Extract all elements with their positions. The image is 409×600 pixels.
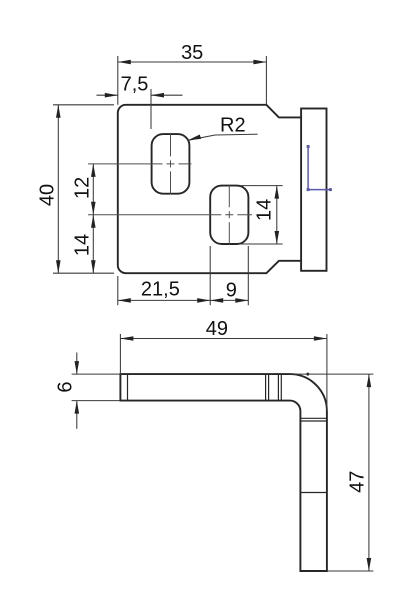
dim 7,5 arrows <box>97 94 118 96</box>
bend line pair 2 <box>278 374 281 401</box>
dim 49 line <box>120 338 327 340</box>
slot 1 centerline vertical <box>170 134 172 195</box>
dim 47 extension lines <box>290 374 373 571</box>
end cap line <box>127 374 129 401</box>
dim 12 line <box>92 164 94 215</box>
dim 7,5 extension line <box>150 89 152 129</box>
svg-text:R2: R2 <box>220 114 246 136</box>
slot 2 centerline horizontal <box>88 214 252 216</box>
svg-text:6: 6 <box>54 382 76 393</box>
svg-text:47: 47 <box>346 471 368 493</box>
dim 47 line <box>368 374 370 571</box>
dim 40 extension lines <box>53 105 114 273</box>
svg-text:9: 9 <box>226 280 237 302</box>
slot 2 centerline vertical <box>228 185 230 244</box>
dim 21,5 line <box>118 299 210 301</box>
svg-text:49: 49 <box>206 318 228 340</box>
dim 14 right extension lines <box>240 186 283 244</box>
point dot <box>306 373 309 376</box>
blue polyline <box>308 147 330 190</box>
bend line pair 1 <box>266 374 269 401</box>
R2 leader <box>188 134 258 140</box>
L profile outline (side view) <box>120 374 327 571</box>
svg-text:14: 14 <box>72 234 94 256</box>
dim 6 arrows <box>76 353 78 375</box>
svg-text:21,5: 21,5 <box>141 278 180 300</box>
slot 2 <box>210 186 248 244</box>
bend line pair vertical arm <box>300 418 327 421</box>
plate outline (top view) <box>118 105 301 273</box>
dim 35 extension lines <box>118 56 267 105</box>
svg-text:12: 12 <box>72 177 94 199</box>
dim 6 extension lines <box>72 374 121 401</box>
dim 49 extension lines <box>120 334 327 411</box>
flange (top view right) <box>301 109 326 271</box>
segment line vertical arm <box>300 492 327 494</box>
svg-text:35: 35 <box>181 42 203 64</box>
slot 1 <box>152 134 190 194</box>
dim 14 left line <box>92 215 94 273</box>
dim 35 line <box>118 61 267 63</box>
dim 9 line <box>210 299 248 301</box>
svg-text:7,5: 7,5 <box>121 74 149 96</box>
svg-text:40: 40 <box>37 184 59 206</box>
dim 40 line <box>57 105 59 273</box>
slot 1 centerline horizontal <box>88 163 192 165</box>
dim 21,5 extension lines <box>118 246 249 305</box>
svg-text:14: 14 <box>253 199 275 221</box>
dim 14 right line <box>276 186 278 244</box>
